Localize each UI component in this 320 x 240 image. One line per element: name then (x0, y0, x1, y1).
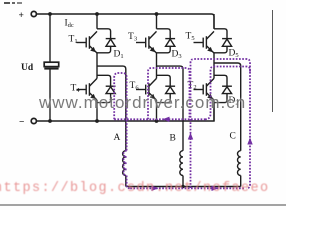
diode D4 (106, 86, 116, 93)
wire D4 branch bottom (97, 94, 111, 103)
wire top rail to T3 collector node (156, 14, 158, 29)
transistor T1 (IGBT) (77, 31, 98, 53)
svg-text:D5: D5 (229, 49, 239, 60)
wire top rail to T5 collector node (213, 14, 215, 29)
diode D6 (165, 86, 175, 93)
wire D6 branch top (157, 75, 171, 86)
node bottom rail / leg 1 (95, 119, 99, 123)
transistor T3 (IGBT) (136, 31, 157, 53)
wire D4 branch top (97, 75, 111, 86)
diode D5 (222, 39, 232, 47)
transistor T2 (IGBT) (194, 78, 215, 100)
inductor phase A winding (123, 151, 126, 176)
current path arrow (up) on phase B (188, 133, 193, 140)
current path: bottom rail segment (dashed) (114, 118, 205, 120)
current path arrow (right) on neutral, left of B (152, 186, 159, 191)
watermark url bottom (0, 181, 270, 196)
current path arrow (left) on bottom rail (163, 117, 170, 122)
wire T6 emitter to bottom rail (156, 100, 158, 121)
svg-text:−: − (19, 118, 24, 128)
node C / wire phase C (214, 63, 241, 151)
transistor T4 (IGBT) (77, 78, 98, 100)
wire T4 emitter to bottom rail (96, 100, 98, 121)
node top rail / leg 2 (155, 12, 159, 16)
svg-text:Ud: Ud (21, 63, 34, 73)
minus terminal (19, 118, 36, 128)
diode D3 (165, 39, 175, 47)
wire T2 emitter to bottom rail (213, 100, 215, 121)
bottom border line (0, 204, 286, 206)
svg-text:D1: D1 (114, 50, 124, 61)
svg-text:T6: T6 (130, 81, 140, 92)
current path arrow (right) on neutral, right of B (212, 186, 219, 191)
wire capacitor bottom lead (49, 69, 51, 121)
wire T3 emitter to midpoint (156, 53, 158, 79)
wire bottom DC rail (37, 103, 214, 121)
wire D3 branch top (157, 29, 171, 39)
svg-text:T5: T5 (186, 32, 195, 43)
wire top rail to T1 collector node (96, 14, 98, 29)
diode D1 (106, 39, 116, 47)
wire D2 branch bottom (214, 94, 227, 103)
wire inductor B to neutral (182, 176, 184, 187)
svg-text:D3: D3 (172, 50, 182, 61)
transistor T5 (IGBT) (194, 31, 215, 53)
current path arrow (up) on phase C (247, 138, 252, 145)
wire inductor C to neutral (240, 176, 242, 187)
current path: loop around T6 cell (dashed) (148, 68, 190, 119)
node bottom rail / capacitor (48, 119, 52, 123)
wire inductor A to neutral (125, 176, 127, 187)
frame edge right (272, 10, 273, 112)
svg-text:B: B (170, 134, 176, 144)
inductor phase C winding (238, 151, 241, 176)
current path: up phase B over to phase C (dashed) (191, 59, 251, 188)
svg-text:T1: T1 (69, 35, 78, 46)
wire capacitor top lead (49, 14, 51, 62)
plus terminal (19, 11, 37, 21)
diode D2 (222, 86, 232, 93)
capacitor Ud (44, 62, 59, 69)
wire D1 branch bottom (97, 46, 111, 53)
svg-text:T3: T3 (128, 32, 137, 43)
svg-text:A: A (114, 133, 121, 143)
tiny corner mark (1, 0, 3, 1)
wire neutral point (126, 186, 241, 188)
wire T1 emitter to midpoint (96, 53, 98, 79)
wire T5 emitter to midpoint (213, 53, 215, 79)
watermark site name (39, 93, 246, 113)
wire D5 branch bottom (214, 46, 227, 53)
node top rail / capacitor (48, 12, 52, 16)
current path: loop around phase A leg (dashed) (114, 73, 126, 151)
node B / neutral junction (181, 185, 184, 188)
wire D3 branch bottom (157, 46, 171, 53)
current path: along neutral (dashed) (130, 187, 244, 189)
wire D2 branch top (214, 75, 227, 86)
node A / wire phase A (97, 66, 126, 151)
current path: loop around T2 cell (dashed) (205, 67, 250, 120)
svg-text:+: + (19, 11, 24, 21)
wire top DC rail (37, 14, 214, 29)
svg-text:Idc: Idc (65, 19, 74, 30)
wire D5 branch top (214, 29, 227, 39)
current path: inductor A to neutral (dashed) (127, 176, 131, 189)
wire D6 branch bottom (157, 94, 171, 103)
inductor phase B winding (180, 151, 183, 176)
node top rail / leg 1 (95, 12, 99, 16)
wire D1 branch top (97, 29, 111, 39)
node B / wire phase B (157, 66, 184, 151)
transistor T6 (IGBT) (136, 78, 157, 100)
node bottom rail / leg 2 (155, 119, 159, 123)
current path: along inductor A (dashed) (123, 151, 126, 176)
svg-text:C: C (230, 132, 236, 142)
